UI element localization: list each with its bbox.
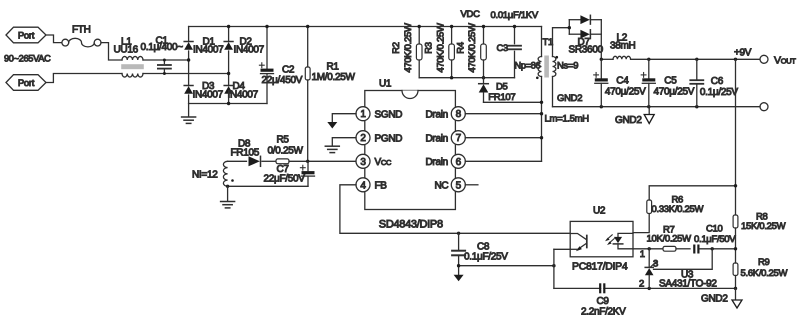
svg-text:C3: C3: [497, 43, 509, 54]
svg-text:D5: D5: [496, 81, 508, 92]
svg-text:PC817/DIP4: PC817/DIP4: [572, 261, 628, 273]
svg-text:470μ/25V: 470μ/25V: [605, 87, 646, 98]
svg-text:2: 2: [360, 133, 366, 144]
svg-text:C4: C4: [616, 76, 629, 87]
svg-text:IN4007: IN4007: [193, 44, 224, 55]
svg-text:Drain: Drain: [426, 109, 448, 120]
svg-text:1: 1: [360, 109, 366, 120]
svg-text:0.01μF/1KV: 0.01μF/1KV: [491, 10, 539, 21]
svg-text:VCC: VCC: [375, 157, 392, 168]
svg-text:SA431/TO-92: SA431/TO-92: [659, 279, 717, 290]
svg-text:SD4843/DIP8: SD4843/DIP8: [379, 219, 443, 231]
svg-text:22μ/450V: 22μ/450V: [262, 75, 303, 86]
svg-text:470K/0.25W: 470K/0.25W: [435, 23, 446, 73]
svg-text:R3: R3: [424, 42, 435, 54]
svg-text:UU16: UU16: [114, 44, 139, 55]
svg-text:IN4007: IN4007: [193, 90, 224, 101]
svg-text:IN4007: IN4007: [228, 90, 259, 101]
svg-text:GND2: GND2: [701, 294, 728, 305]
svg-text:0.33K/0.25W: 0.33K/0.25W: [652, 204, 704, 215]
svg-text:FB: FB: [375, 180, 388, 191]
svg-text:90~265VAC: 90~265VAC: [4, 54, 51, 64]
svg-text:C9: C9: [597, 296, 610, 307]
svg-text:4: 4: [360, 180, 366, 191]
svg-text:U1: U1: [379, 79, 392, 90]
svg-text:R2: R2: [391, 42, 402, 54]
svg-text:PGND: PGND: [375, 133, 403, 144]
svg-text:6: 6: [456, 157, 462, 168]
svg-text:0.1μF/50V: 0.1μF/50V: [694, 234, 736, 245]
svg-text:VDC: VDC: [461, 9, 481, 20]
svg-text:2: 2: [639, 278, 644, 289]
svg-text:Lm=1.5mH: Lm=1.5mH: [545, 114, 590, 125]
svg-text:0/0.25W: 0/0.25W: [268, 146, 304, 157]
svg-text:2.2nF/2KV: 2.2nF/2KV: [581, 307, 626, 318]
svg-text:0.1μ/25V: 0.1μ/25V: [700, 87, 738, 98]
svg-text:R5: R5: [277, 135, 290, 146]
svg-text:3: 3: [653, 258, 658, 269]
svg-text:Ns=9: Ns=9: [557, 61, 578, 72]
svg-text:Drain: Drain: [426, 133, 448, 144]
svg-text:SR3600: SR3600: [569, 44, 604, 55]
svg-text:470K/0.25W: 470K/0.25W: [467, 23, 478, 73]
svg-text:Drain: Drain: [426, 157, 448, 168]
svg-text:Np=86: Np=86: [515, 61, 541, 71]
svg-text:470μ/25V: 470μ/25V: [654, 87, 695, 98]
svg-text:22μF/50V: 22μF/50V: [264, 174, 306, 185]
svg-text:470K/0.25W: 470K/0.25W: [403, 23, 414, 73]
svg-text:+9V: +9V: [734, 48, 752, 59]
svg-text:NI=12: NI=12: [192, 170, 218, 181]
svg-text:U2: U2: [593, 206, 606, 217]
svg-text:5: 5: [456, 180, 462, 191]
svg-text:1: 1: [640, 249, 645, 260]
svg-text:GND2: GND2: [557, 93, 582, 104]
svg-text:Port: Port: [18, 78, 35, 89]
svg-text:3: 3: [360, 157, 366, 168]
svg-text:NC: NC: [435, 180, 449, 191]
svg-text:C6: C6: [711, 76, 724, 87]
svg-text:5.6K/0.25W: 5.6K/0.25W: [741, 268, 788, 279]
svg-text:R9: R9: [758, 257, 770, 268]
svg-text:15K/0.25W: 15K/0.25W: [741, 221, 786, 232]
svg-text:38mH: 38mH: [610, 41, 636, 52]
svg-text:Port: Port: [18, 30, 35, 41]
svg-text:1M/0.25W: 1M/0.25W: [312, 72, 356, 83]
svg-text:7: 7: [456, 133, 462, 144]
svg-text:FR107: FR107: [488, 92, 515, 103]
svg-text:T1: T1: [543, 37, 554, 48]
svg-text:FR105: FR105: [231, 148, 260, 159]
svg-text:GND2: GND2: [615, 115, 642, 126]
svg-text:SGND: SGND: [375, 109, 403, 120]
svg-text:VOUT: VOUT: [774, 55, 796, 67]
svg-text:0.1μF/25V: 0.1μF/25V: [464, 252, 508, 263]
svg-text:0.1μ/400~: 0.1μ/400~: [141, 42, 184, 53]
svg-text:10K/0.25W: 10K/0.25W: [647, 234, 692, 245]
svg-text:IN4007: IN4007: [234, 44, 265, 55]
svg-text:R4: R4: [456, 42, 467, 54]
svg-text:8: 8: [456, 109, 462, 120]
svg-text:FTH: FTH: [72, 25, 91, 36]
svg-text:C5: C5: [664, 76, 677, 87]
